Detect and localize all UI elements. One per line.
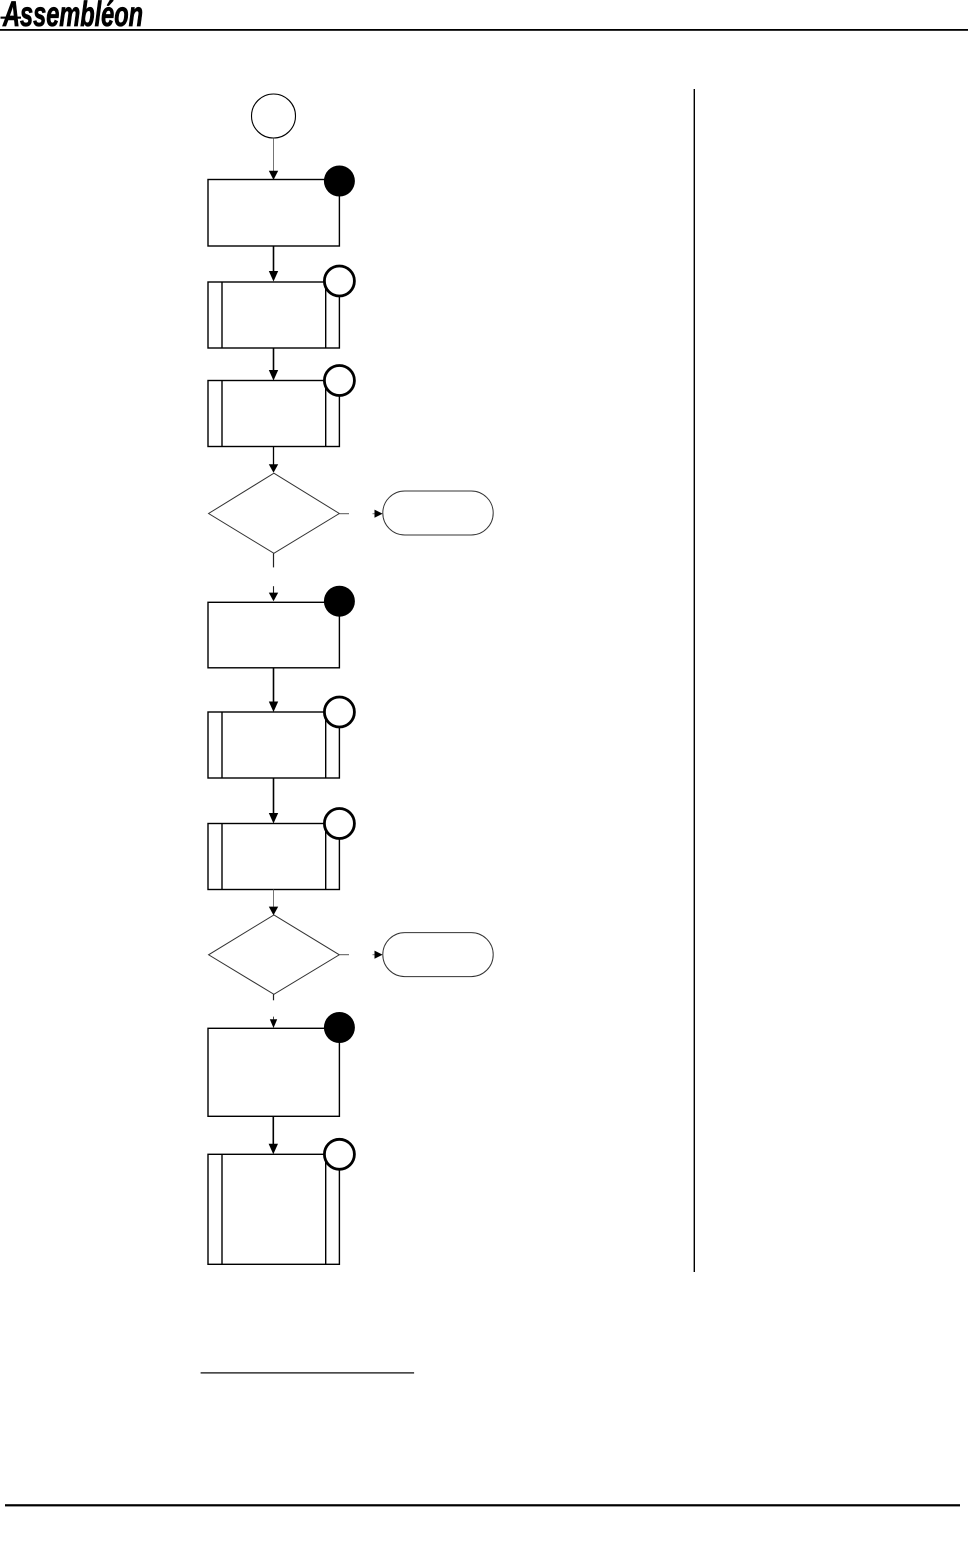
predefined box 5 bbox=[208, 712, 339, 778]
wire box5 to box6 bbox=[269, 778, 278, 824]
right vertical line bbox=[694, 89, 695, 1272]
start circle bbox=[252, 94, 296, 138]
predefined box 3 bbox=[208, 381, 339, 447]
process box 4 bbox=[208, 602, 339, 668]
white node on box 5 bbox=[324, 697, 354, 727]
predefined box 2 bbox=[208, 282, 339, 348]
wire box2 to box3 bbox=[269, 348, 278, 381]
black node on box 7 bbox=[324, 1012, 355, 1043]
wire box3 to diamond1 bbox=[269, 447, 278, 473]
wire diamond1 to box4 bbox=[269, 554, 278, 602]
black node on box 1 bbox=[324, 166, 355, 197]
wire diamond2 to box7 bbox=[270, 994, 277, 1028]
wire diamond2 to terminator2 bbox=[339, 951, 382, 959]
decision diamond 1 bbox=[209, 473, 340, 553]
bottom rule bbox=[5, 1504, 960, 1506]
predefined box 6 bbox=[208, 824, 339, 890]
header rule bbox=[0, 29, 968, 31]
white node on box 8 bbox=[324, 1139, 354, 1169]
wire box4 to box5 bbox=[269, 668, 278, 712]
wire box6 to diamond2 bbox=[269, 890, 278, 916]
white node on box 6 bbox=[324, 809, 354, 839]
decision diamond 2 bbox=[209, 915, 340, 994]
terminator 2 bbox=[383, 933, 493, 977]
white node on box 2 bbox=[324, 266, 354, 296]
white node on box 3 bbox=[324, 366, 354, 396]
predefined box 8 bbox=[208, 1154, 339, 1264]
wire box7 to box8 bbox=[269, 1116, 278, 1154]
footnote rule bbox=[201, 1372, 415, 1373]
wire start to box1 bbox=[269, 138, 278, 180]
black node on box 4 bbox=[324, 586, 355, 617]
terminator 1 bbox=[383, 491, 493, 535]
process box 1 bbox=[208, 180, 339, 247]
wire diamond1 to terminator1 bbox=[339, 510, 382, 518]
logo Assembleon bbox=[1, 0, 144, 34]
process box 7 bbox=[208, 1028, 339, 1116]
wire box1 to box2 bbox=[269, 246, 278, 282]
